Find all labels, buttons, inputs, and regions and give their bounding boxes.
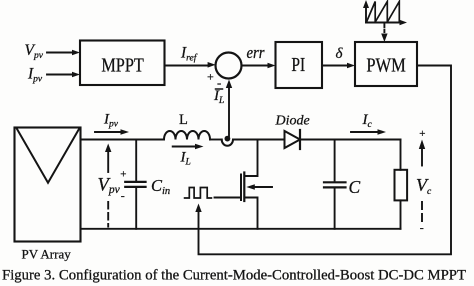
label Vc minus — [420, 221, 424, 235]
svg-text:Figure 3. Configuration of the: Figure 3. Configuration of the Current-M… — [2, 268, 466, 284]
label minus sign — [217, 75, 221, 90]
diode D — [285, 130, 301, 149]
resistor load R — [395, 140, 408, 229]
label C — [349, 177, 361, 197]
PV array panel — [15, 128, 81, 242]
label PV Array — [22, 246, 72, 261]
label Cin plus — [120, 168, 126, 180]
wire rail diode to output corner — [300, 139, 401, 141]
label Vpv input — [25, 42, 44, 61]
wire MOSFET source branch — [245, 198, 258, 229]
wire MOSFET drain branch — [245, 140, 258, 177]
label Ic arrow — [351, 112, 386, 135]
gate pulse waveform symbol — [185, 188, 212, 199]
inductor L — [164, 131, 210, 140]
label Iref — [180, 45, 198, 64]
wire carrier to PWM — [381, 25, 387, 43]
label Cin — [151, 176, 170, 197]
wire Vpv to MPPT — [47, 50, 80, 56]
label Ipv arrow on rail — [95, 112, 129, 135]
wire top rail PV to inductor — [81, 139, 165, 141]
label IL-bar feedback — [213, 88, 224, 106]
label plus sign — [207, 70, 214, 84]
wire rail inductor to diode — [210, 139, 285, 141]
capacitor Cin — [125, 140, 145, 229]
wire PWM output to gate drive — [195, 66, 451, 255]
wire inductor current feedback to summer — [226, 80, 232, 137]
node current sense junction dot — [225, 136, 231, 142]
label Vc arrow — [416, 140, 432, 224]
wire hop under sense node — [222, 140, 233, 146]
capacitor C output — [324, 140, 346, 229]
label err — [247, 43, 266, 62]
wire gate lead — [215, 197, 242, 199]
block PWM — [355, 42, 417, 86]
wire bottom rail — [81, 228, 401, 230]
wire MPPT to summer — [165, 62, 216, 68]
sawtooth carrier ramps — [367, 2, 400, 23]
block PI — [276, 42, 323, 88]
wire Ipv to MPPT — [47, 72, 80, 78]
label Cin minus — [121, 188, 125, 202]
summing junction — [216, 53, 242, 79]
label IL arrow under inductor — [173, 144, 204, 168]
label L — [179, 112, 188, 128]
label Ipv input — [27, 66, 43, 85]
label Diode — [275, 114, 310, 129]
sawtooth carrier axes — [363, 0, 407, 25]
block MPPT — [80, 41, 165, 86]
wire PI to PWM — [322, 63, 355, 69]
label Vc plus — [419, 128, 425, 140]
transistor Q MOSFET — [241, 173, 272, 202]
wire summer to PI — [242, 63, 276, 69]
label Vpv measurement arrow — [98, 144, 121, 227]
label delta — [336, 46, 344, 62]
